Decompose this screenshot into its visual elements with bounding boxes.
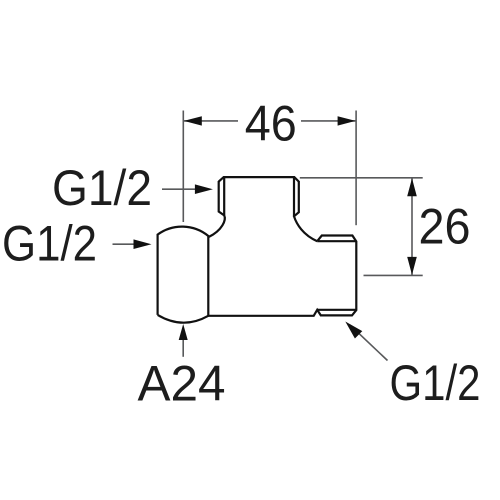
svg-text:26: 26 <box>419 198 471 255</box>
svg-text:A24: A24 <box>138 355 226 412</box>
svg-text:G1/2: G1/2 <box>390 354 481 411</box>
svg-text:46: 46 <box>245 95 297 152</box>
svg-text:G1/2: G1/2 <box>52 159 152 216</box>
svg-text:G1/2: G1/2 <box>2 215 97 272</box>
